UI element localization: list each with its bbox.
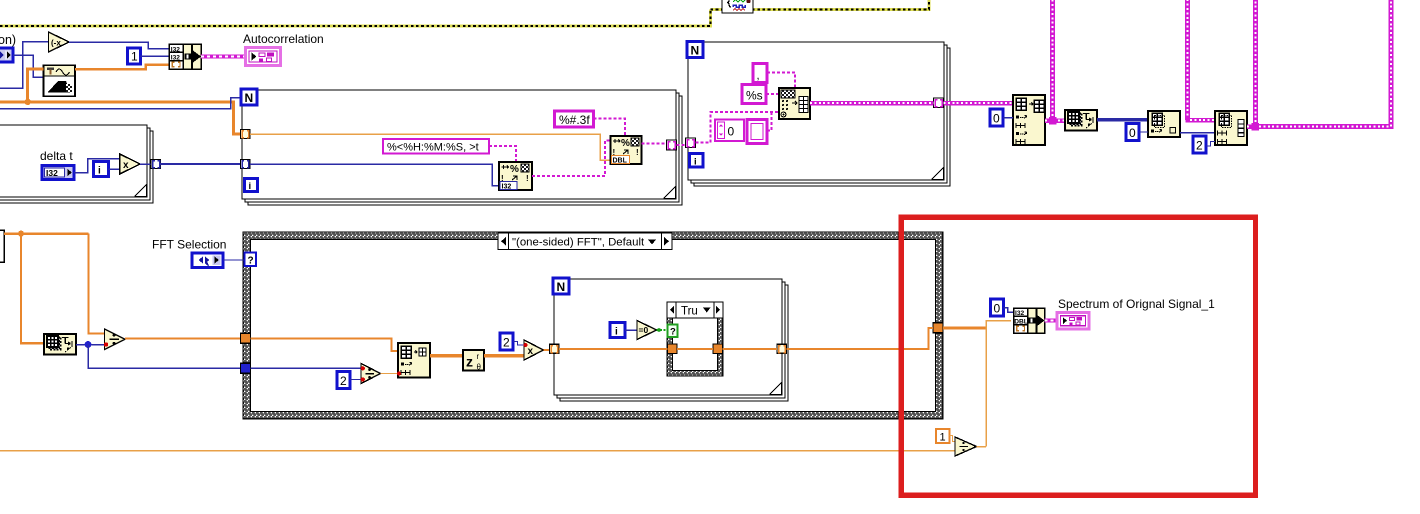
wire junction up to negate [23, 42, 49, 56]
long pink wire loop2 to insert node [944, 101, 1014, 106]
svg-text:delta t: delta t [40, 149, 73, 163]
svg-text:Tru: Tru [681, 306, 698, 318]
wire orange down to array size node [21, 234, 44, 344]
wire I32 to multiply [74, 159, 120, 173]
wire divide3 out [977, 446, 987, 448]
array node E [1215, 111, 1247, 145]
wire junction down exit left [0, 55, 23, 88]
wire negate to bundle [69, 42, 169, 49]
iteration terminal i [94, 162, 109, 177]
terminal I32 delta t [42, 166, 74, 180]
svg-text:!: ! [526, 174, 529, 183]
numeric constant 0 with spin [715, 120, 744, 142]
svg-text:%<%H:%M:%S, >t: %<%H:%M:%S, >t [387, 142, 479, 154]
i terminal loop1 [245, 179, 258, 193]
wire i to equals0 [625, 329, 637, 331]
svg-text:0: 0 [993, 112, 1000, 126]
svg-text:N: N [557, 280, 566, 294]
tunnel in orange loop1 [241, 130, 251, 139]
case selector ? [245, 253, 257, 267]
for loop N3 [554, 279, 782, 395]
pink vertical wire 2 into node E [1186, 0, 1216, 120]
constant 0 bundle2 [991, 299, 1004, 316]
wire blue branch down to case tunnel [88, 345, 241, 369]
bundle node 2 (I32,DBL,C) [1014, 308, 1045, 333]
multiply function [120, 154, 140, 174]
label FFT Selection [152, 238, 226, 252]
wire 2 to node E [1206, 142, 1215, 147]
constant 0 node A [990, 109, 1003, 126]
for loop N2 [688, 42, 944, 180]
wire control to junction [13, 54, 23, 56]
wire node B to node D thick blue [1097, 118, 1148, 122]
label delta t [40, 149, 73, 163]
svg-text:(-x: (-x [51, 39, 61, 48]
array subset node [397, 343, 430, 378]
svg-text:i: i [615, 327, 618, 338]
error wire upper segment [711, 0, 930, 10]
tunnel out loop3 [777, 344, 787, 353]
array to spreadsheet string node [779, 88, 810, 119]
constant 1 orange [936, 429, 950, 444]
N count terminal loop1 [241, 89, 257, 105]
constant 1 [128, 48, 141, 64]
insert into array node A [1013, 95, 1045, 145]
wire i to multiply [109, 168, 120, 170]
divide function 1 [104, 329, 125, 350]
divide function 2 [361, 364, 381, 384]
tunnel orange small case right [713, 344, 723, 354]
string constant %s [742, 85, 766, 104]
wire divide out to case tunnel orange [125, 337, 241, 339]
wire DBL node to out tunnel [642, 143, 667, 145]
svg-text:0: 0 [994, 302, 1001, 316]
tunnel in loop3 [550, 344, 560, 353]
svg-text:2: 2 [1196, 139, 1203, 153]
svg-text:!: ! [636, 148, 639, 157]
svg-text:"(one-sided) FFT", Default: "(one-sided) FFT", Default [512, 237, 645, 249]
i terminal loop2 [690, 154, 704, 168]
svg-text:DBL: DBL [1014, 318, 1028, 325]
array size node [44, 334, 76, 355]
i terminal loop3 [610, 323, 625, 338]
svg-text:θ: θ [477, 363, 482, 372]
wire time format to node [489, 146, 516, 161]
wire green to case selector [657, 328, 668, 332]
wire orange loop3 to case tunnel [787, 328, 934, 349]
small case structure Tru [667, 302, 723, 376]
wire orange vertical divide3 to bundle [986, 321, 1011, 447]
svg-text:i: i [694, 157, 697, 168]
red highlight rectangle [901, 217, 1255, 495]
wire orange inside case to subset node [251, 338, 399, 351]
pink horizontal to wire 4 [1255, 124, 1391, 129]
svg-text:1: 1 [131, 50, 138, 64]
pink vertical wire 1 [1049, 0, 1057, 125]
tunnel orange solid left [241, 333, 251, 343]
svg-text:r: r [477, 352, 480, 361]
svg-text:I32: I32 [1015, 310, 1024, 317]
indicator Spectrum [1057, 313, 1089, 330]
svg-text:x: x [528, 346, 534, 357]
pink vertical wire 3 [1252, 0, 1260, 130]
wire enum to selector [223, 259, 245, 261]
constant 2 divide [337, 372, 350, 389]
svg-text:2: 2 [340, 374, 347, 388]
svg-text:on): on) [0, 33, 16, 47]
divide function 3 [955, 437, 977, 456]
tunnel out delta-t loop [151, 160, 161, 169]
error wire lower segment [0, 10, 711, 27]
enum terminal FFT Selection [192, 253, 223, 268]
string constant time format [383, 139, 489, 154]
wire orange tunnel to DBL format node [250, 134, 611, 160]
svg-text:I32: I32 [502, 184, 512, 191]
svg-text:N: N [245, 91, 254, 105]
wire I32 node to DBL node [532, 141, 611, 177]
tunnel blue solid left [241, 363, 251, 373]
svg-text:?: ? [670, 327, 676, 338]
wire 1 to bundle [141, 55, 170, 57]
wire multiply2 to loop3 [544, 349, 551, 351]
svg-text:z: z [466, 354, 473, 370]
wire 0 to node D [1139, 131, 1148, 133]
svg-text:0: 0 [728, 125, 735, 139]
waveform build node [44, 65, 76, 96]
wire bundle2 to indicator [1045, 319, 1058, 323]
N count terminal loop2 [687, 42, 703, 58]
wire subset to Z thick orange [430, 354, 463, 357]
connector box left edge [0, 230, 4, 262]
svg-text:DBL: DBL [613, 158, 628, 165]
wire orange junction up into waveform node [25, 69, 44, 105]
string constant %#.3f [555, 111, 594, 127]
for loop N2 shadow [691, 45, 950, 186]
label Spectrum of Orignal Signal_1 [1058, 297, 1215, 311]
for loop N1 shadow [245, 93, 682, 205]
selector ? small case [668, 325, 678, 338]
for loop delta-t shadow [0, 128, 153, 203]
for loop delta-t [0, 125, 147, 197]
svg-text:0: 0 [1129, 126, 1136, 140]
wire thick orange case tunnel right [943, 326, 986, 329]
wire blue tunnel to I32 format node [250, 164, 499, 186]
pink vertical wire 4 [1389, 0, 1394, 129]
wire multiply to tunnel [140, 163, 151, 165]
svg-text:I32: I32 [46, 168, 58, 178]
tunnel in blue loop1 [241, 160, 251, 169]
svg-text:%: % [621, 138, 630, 149]
merge signals node [722, 0, 753, 13]
svg-text:%#.3f: %#.3f [559, 113, 590, 127]
exponent node Z [463, 350, 484, 372]
constant 0 node D [1126, 124, 1139, 141]
wire node to out tunnel [810, 101, 934, 106]
wire orange through loop3 [559, 348, 777, 350]
wire 0 to bundle2 [1004, 308, 1014, 313]
long blue wire to N [0, 98, 241, 109]
svg-text:%s: %s [746, 89, 763, 103]
wire %#.3f to DBL node [594, 119, 626, 137]
format into string node DBL [611, 136, 642, 165]
svg-text:=0: =0 [639, 325, 649, 335]
wire 0 to node A [1003, 117, 1013, 119]
svg-text:x: x [123, 160, 129, 171]
wire tunnel to loop2 [677, 144, 687, 146]
case label box [498, 233, 672, 250]
svg-text:i: i [249, 181, 252, 192]
wire node to divide with junction [76, 341, 105, 348]
svg-text:,: , [757, 70, 760, 82]
wire 2 to divide2 [350, 379, 361, 381]
wire node E out junction [1247, 124, 1255, 129]
svg-text:%: % [510, 164, 519, 175]
transpose array node B [1065, 110, 1097, 131]
wire bundle to Autocorrelation indicator [201, 55, 245, 59]
control terminal left edge [0, 48, 13, 62]
wire comma to node [767, 73, 795, 89]
multiply function 2 [523, 340, 543, 360]
for loop N1 [242, 90, 676, 199]
array node D [1148, 111, 1180, 137]
tunnel orange solid right [933, 323, 943, 333]
svg-text:FFT Selection: FFT Selection [152, 238, 226, 252]
tunnel orange small case left [668, 344, 678, 354]
indicator Autocorrelation [246, 48, 281, 66]
negate function [49, 32, 70, 52]
svg-text:2: 2 [503, 336, 510, 350]
N count terminal loop3 [553, 278, 569, 294]
wire divide2 to subset node [381, 373, 399, 375]
long orange wire left [0, 102, 241, 134]
svg-text:I32: I32 [171, 55, 180, 62]
svg-text:Autocorrelation: Autocorrelation [243, 32, 324, 46]
equals zero function [637, 321, 657, 340]
wire orange connector horizontal [4, 231, 89, 237]
empty string box [747, 120, 767, 144]
svg-text:i: i [98, 166, 101, 177]
wire %s to node [766, 93, 779, 95]
constant 2 multiply [500, 333, 513, 350]
label (Acquisition) partial [0, 33, 16, 47]
wire 2 to multiply2 [513, 342, 524, 346]
svg-text:1: 1 [940, 432, 946, 444]
wire pink tunnel to array node input [696, 112, 780, 143]
wire waveform out to bundle C [75, 65, 169, 69]
wire node A out with junction [1045, 118, 1065, 123]
svg-text:I32: I32 [171, 46, 180, 53]
wire to big for loop [161, 163, 241, 165]
wire Z to multiply2 thick orange [484, 354, 524, 357]
bundle node (I32,I32,C) [169, 44, 201, 69]
svg-text:Spectrum of Orignal Signal_1: Spectrum of Orignal Signal_1 [1058, 297, 1215, 311]
svg-text:?: ? [248, 256, 254, 267]
for loop N3 shadow [557, 282, 788, 401]
label Autocorrelation [243, 32, 324, 46]
wire pink branch down to box [767, 112, 772, 131]
string constant comma [753, 64, 767, 83]
wire orange down to divide top [89, 234, 105, 334]
long orange wire bottom [0, 450, 955, 452]
tunnel out pink loop1 [667, 140, 677, 150]
svg-text:N: N [691, 44, 700, 58]
tunnel in pink loop2 [686, 138, 696, 148]
case structure border [243, 232, 943, 419]
wire 1 to divide3 [950, 436, 956, 442]
format into string node I32 [499, 162, 532, 191]
tunnel out pink loop2 [934, 98, 944, 108]
wire node D to node E [1180, 132, 1215, 134]
constant 2 node E [1193, 136, 1206, 153]
wire blue inside case to divide2 [251, 367, 362, 369]
wire junction to waveform node [23, 55, 44, 77]
